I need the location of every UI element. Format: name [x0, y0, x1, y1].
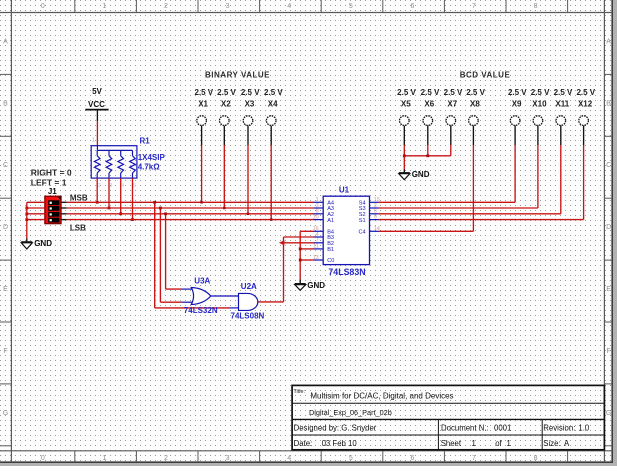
svg-text:BINARY VALUE: BINARY VALUE: [205, 70, 270, 79]
svg-text:R1: R1: [140, 137, 151, 146]
svg-text:2.5 V: 2.5 V: [397, 88, 416, 97]
svg-text:5: 5: [349, 455, 353, 462]
svg-text:74LS08N: 74LS08N: [231, 312, 265, 321]
svg-text:X11: X11: [555, 99, 569, 108]
svg-text:2.5 V: 2.5 V: [194, 88, 213, 97]
svg-text:4: 4: [287, 3, 291, 10]
svg-text:1X4SIP: 1X4SIP: [138, 153, 166, 162]
svg-text:5: 5: [349, 3, 353, 10]
svg-text:8: 8: [534, 3, 538, 10]
svg-text:1: 1: [507, 439, 511, 448]
svg-text:2.5 V: 2.5 V: [576, 88, 595, 97]
svg-text:BCD VALUE: BCD VALUE: [460, 70, 511, 79]
svg-text:B: B: [3, 100, 8, 107]
svg-text:7: 7: [472, 455, 476, 462]
svg-text:C0: C0: [327, 258, 334, 264]
svg-text:10: 10: [313, 214, 319, 220]
svg-text:4.7kΩ: 4.7kΩ: [138, 162, 161, 171]
svg-text:0: 0: [41, 3, 45, 10]
svg-text:GND: GND: [307, 281, 325, 290]
svg-text:A: A: [3, 39, 8, 46]
svg-text:LSB: LSB: [70, 223, 86, 232]
svg-text:Multisim for DC/AC, Digital, a: Multisim for DC/AC, Digital, and Devices: [310, 392, 453, 401]
svg-text:X3: X3: [245, 99, 255, 108]
svg-text:Title:: Title:: [293, 389, 305, 395]
svg-text:Document N.:: Document N.:: [441, 424, 489, 433]
svg-text:G: G: [606, 410, 611, 417]
svg-text:D: D: [606, 224, 611, 231]
svg-text:X5: X5: [401, 99, 411, 108]
svg-text:8: 8: [534, 455, 538, 462]
svg-text:5: 5: [133, 183, 136, 189]
svg-text:1: 1: [102, 3, 106, 10]
svg-text:RIGHT = 0: RIGHT = 0: [31, 167, 72, 177]
svg-text:VCC: VCC: [88, 100, 105, 109]
svg-text:MSB: MSB: [70, 194, 88, 203]
svg-text:2.5 V: 2.5 V: [217, 88, 236, 97]
svg-text:3: 3: [226, 3, 230, 10]
svg-text:X8: X8: [470, 99, 480, 108]
svg-text:X4: X4: [268, 99, 278, 108]
svg-text:2.5 V: 2.5 V: [531, 88, 550, 97]
svg-text:S1: S1: [359, 218, 366, 224]
svg-text:3: 3: [226, 455, 230, 462]
svg-text:7: 7: [472, 3, 476, 10]
svg-text:2.5 V: 2.5 V: [466, 88, 485, 97]
svg-text:2.5 V: 2.5 V: [241, 88, 260, 97]
svg-text:3: 3: [110, 183, 113, 189]
svg-text:2.5 V: 2.5 V: [554, 88, 573, 97]
svg-text:03 Feb 10: 03 Feb 10: [322, 439, 358, 448]
svg-text:Revision:: Revision:: [543, 424, 575, 433]
svg-text:B2: B2: [327, 241, 334, 247]
svg-text:X9: X9: [512, 99, 522, 108]
svg-text:X6: X6: [424, 99, 434, 108]
svg-text:X7: X7: [447, 99, 457, 108]
svg-text:X1: X1: [198, 99, 208, 108]
svg-text:6: 6: [410, 3, 414, 10]
svg-text:J1: J1: [48, 187, 57, 196]
svg-text:1: 1: [472, 439, 476, 448]
svg-text:5V: 5V: [92, 87, 102, 96]
svg-text:E: E: [606, 286, 611, 293]
svg-text:C4: C4: [358, 230, 365, 236]
svg-text:2.5 V: 2.5 V: [421, 88, 440, 97]
svg-text:6: 6: [410, 455, 414, 462]
svg-text:2: 2: [164, 455, 168, 462]
svg-text:U3A: U3A: [194, 276, 210, 285]
svg-text:2.5 V: 2.5 V: [444, 88, 463, 97]
svg-text:A1: A1: [327, 218, 334, 224]
svg-text:X12: X12: [578, 99, 593, 108]
svg-text:11: 11: [313, 244, 319, 250]
svg-text:74LS83N: 74LS83N: [328, 267, 365, 277]
svg-text:F: F: [606, 348, 610, 355]
svg-text:1.0: 1.0: [578, 424, 590, 433]
svg-text:2.5 V: 2.5 V: [264, 88, 283, 97]
svg-text:A: A: [564, 439, 570, 448]
svg-text:E: E: [3, 286, 8, 293]
svg-text:LEFT = 1: LEFT = 1: [31, 178, 67, 188]
svg-text:GND: GND: [34, 239, 52, 248]
svg-text:B: B: [606, 100, 611, 107]
svg-text:U1: U1: [339, 186, 350, 195]
svg-text:2.5 V: 2.5 V: [508, 88, 527, 97]
svg-text:74LS32N: 74LS32N: [184, 306, 218, 315]
svg-text:1: 1: [102, 455, 106, 462]
svg-text:GND: GND: [412, 170, 430, 179]
svg-text:2: 2: [98, 183, 101, 189]
svg-text:0001: 0001: [494, 424, 511, 433]
svg-text:Designed by: G. Snyder: Designed by: G. Snyder: [294, 424, 377, 433]
svg-text:X10: X10: [532, 99, 547, 108]
svg-text:B1: B1: [327, 247, 334, 253]
svg-text:2: 2: [164, 3, 168, 10]
svg-text:7: 7: [316, 238, 319, 244]
svg-text:of: of: [495, 439, 502, 448]
svg-text:Date:: Date:: [294, 439, 313, 448]
svg-text:1: 1: [92, 138, 95, 144]
svg-text:0: 0: [41, 455, 45, 462]
svg-text:Size:: Size:: [543, 439, 560, 448]
svg-text:A: A: [606, 39, 611, 46]
svg-text:4: 4: [287, 455, 291, 462]
svg-text:F: F: [3, 348, 7, 355]
svg-text:4: 4: [121, 183, 124, 189]
svg-text:C: C: [606, 162, 611, 169]
svg-text:C: C: [3, 162, 8, 169]
svg-text:G: G: [3, 410, 8, 417]
svg-text:9: 9: [374, 214, 377, 220]
svg-text:14: 14: [374, 226, 380, 232]
svg-text:X2: X2: [221, 99, 231, 108]
svg-text:Sheet: Sheet: [441, 439, 462, 448]
svg-text:D: D: [3, 224, 8, 231]
svg-text:U2A: U2A: [241, 282, 257, 291]
svg-text:Digital_Exp_06_Part_02b: Digital_Exp_06_Part_02b: [309, 408, 392, 417]
